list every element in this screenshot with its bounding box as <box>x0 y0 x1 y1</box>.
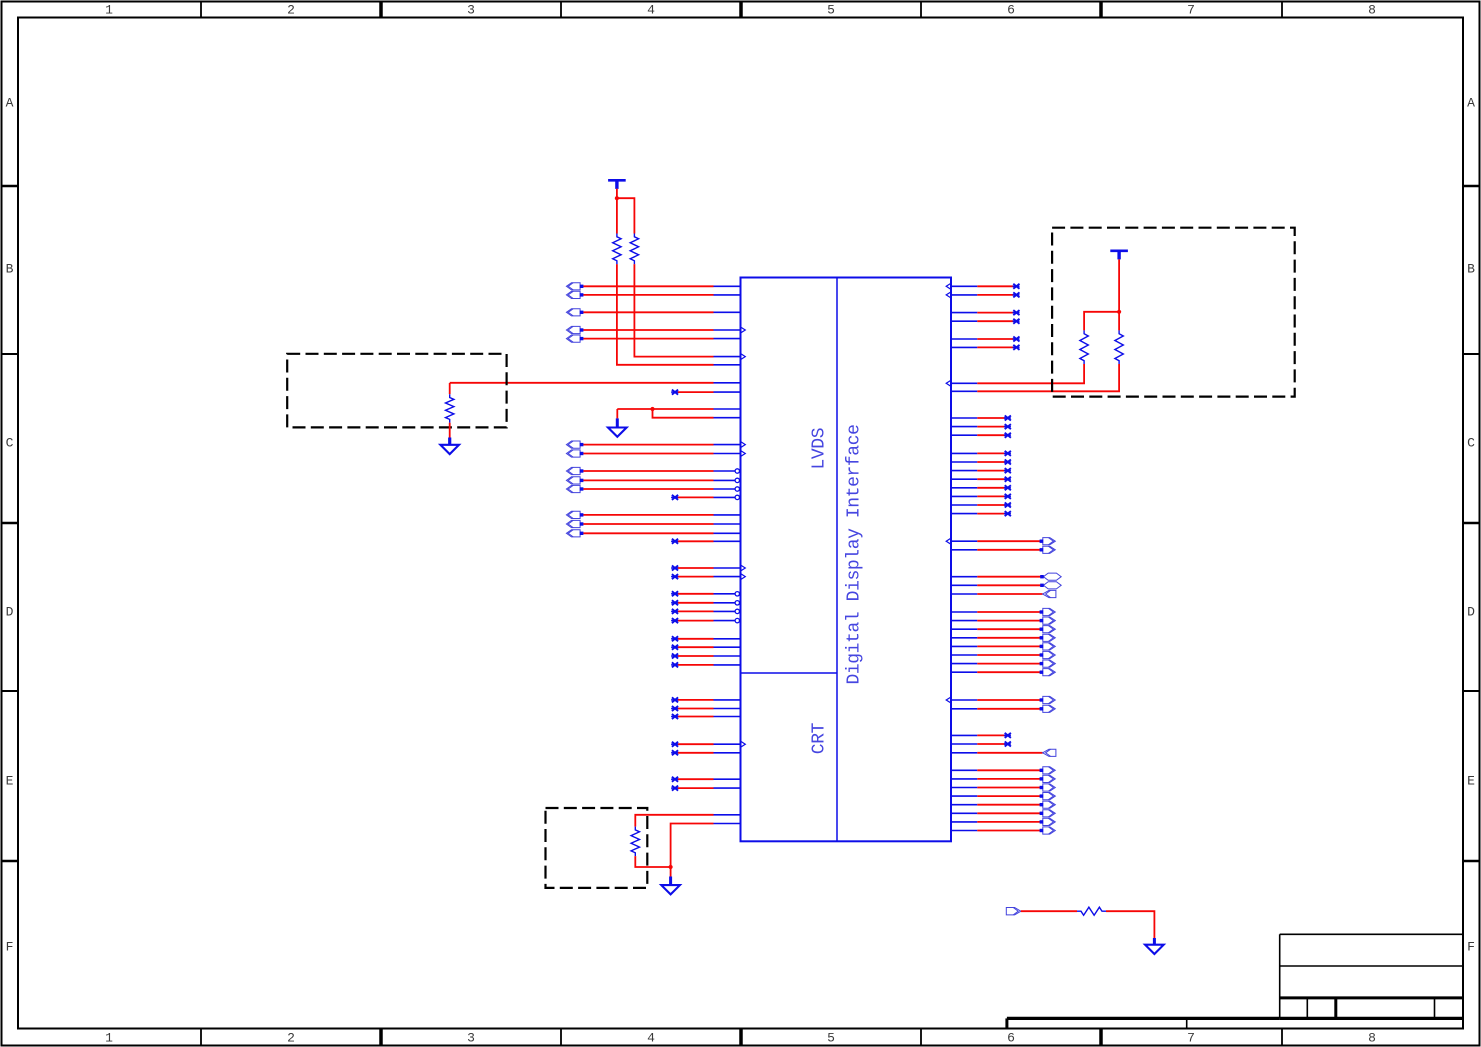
pin R28 y=637.8 <box>951 634 1055 641</box>
svg-text:A: A <box>1467 96 1475 111</box>
pin R12 y=453.4 <box>951 451 1011 456</box>
svg-text:A: A <box>6 96 14 111</box>
pin L30 y=656.0 <box>671 654 740 659</box>
pin R35 y=735.4 <box>951 733 1011 738</box>
ground GND2 <box>608 428 627 437</box>
pin L14 y=471.0 <box>566 467 740 474</box>
wire junction A to R1 top <box>616 198 618 233</box>
svg-text:B: B <box>6 262 14 277</box>
svg-text:6: 6 <box>1007 1031 1015 1046</box>
pin R30 y=655.0 <box>951 651 1055 658</box>
svg-text:1: 1 <box>105 1031 113 1046</box>
svg-text:8: 8 <box>1368 3 1376 18</box>
pin L6 y=356.6 <box>634 264 745 359</box>
resistor R1 <box>613 234 621 265</box>
ground GND3 stem <box>669 877 672 886</box>
pin L15 y=480.4 <box>566 477 740 484</box>
pin L34 y=716.5 <box>671 714 740 719</box>
ground GND2 stem <box>616 418 619 428</box>
svg-text:C: C <box>1467 436 1475 451</box>
wire pin L40 to node D <box>671 824 714 868</box>
ground GND1 stem <box>448 438 451 445</box>
junction node B <box>650 407 654 411</box>
pin R9 y=418.0 <box>951 416 1011 421</box>
ground GND1 <box>440 445 459 454</box>
svg-text:E: E <box>1467 774 1475 789</box>
pin L17 y=497.4 <box>671 495 740 500</box>
pin R31 y=663.6 <box>951 660 1055 667</box>
svg-text:1: 1 <box>105 3 113 18</box>
pin R40 y=787.5 <box>951 784 1055 791</box>
pin R27 y=629.2 <box>951 626 1055 633</box>
pin L38 y=788.1 <box>671 786 740 791</box>
zone column dividers <box>201 2 1282 1046</box>
pin L25 y=602.8 <box>671 600 740 605</box>
pin L24 y=593.8 <box>671 591 740 596</box>
pin R42 y=804.7 <box>951 801 1055 808</box>
svg-text:2: 2 <box>287 1031 295 1046</box>
IC U1 section divider vertical <box>836 278 838 842</box>
zone row dividers <box>2 186 1480 861</box>
pin L35 y=744.2 <box>671 741 745 747</box>
IC U1 section divider horizontal (LVDS/CRT) <box>741 672 838 674</box>
pin R25 y=612.0 <box>951 608 1055 615</box>
pin L3 y=312.3 <box>566 309 740 316</box>
port P_BR <box>1006 908 1021 915</box>
dashed box DNI left <box>287 354 506 428</box>
pin L7 y=364.8 <box>617 264 741 365</box>
wire R3 bottom <box>449 423 451 438</box>
svg-text:Digital Display Interface: Digital Display Interface <box>844 424 864 684</box>
pin L10 y=409.0 <box>617 408 740 410</box>
junction node C <box>1117 310 1121 314</box>
resistor R5 <box>1115 330 1123 364</box>
pin L8 y=382.8 <box>450 382 741 384</box>
pin L29 y=647.2 <box>671 645 740 650</box>
pin R44 y=821.9 <box>951 818 1055 825</box>
junction node D <box>669 865 673 869</box>
pin R14 y=470.6 <box>951 468 1011 473</box>
resistor R3 <box>446 394 454 423</box>
svg-text:7: 7 <box>1187 3 1195 18</box>
junction node A <box>615 196 619 200</box>
pin L4 y=330.0 <box>566 326 745 333</box>
pin R26 y=620.6 <box>951 617 1055 624</box>
wire R6 top to pin L39 <box>635 815 713 827</box>
wire P_BR to R7 <box>1021 910 1077 912</box>
pin R43 y=813.3 <box>951 810 1055 817</box>
power symbol VCC1 <box>608 180 626 189</box>
svg-text:CRT: CRT <box>809 722 829 754</box>
svg-text:4: 4 <box>647 3 655 18</box>
bottom strip <box>1007 1018 1280 1028</box>
wire R3 top to pin <box>449 383 451 394</box>
pin R37 y=752.8 <box>951 749 1056 756</box>
pin R18 y=505.0 <box>951 503 1011 508</box>
svg-text:6: 6 <box>1007 3 1015 18</box>
wire VCC2 down <box>1118 259 1120 311</box>
svg-text:LVDS: LVDS <box>809 428 829 470</box>
pin R16 y=487.8 <box>951 485 1011 490</box>
pin R5 y=339.0 <box>951 337 1020 342</box>
label LVDS <box>809 428 829 470</box>
dashed box DNI bottom <box>546 808 648 888</box>
pin L13 y=453.5 <box>566 450 745 457</box>
resistor R7 <box>1077 907 1106 915</box>
svg-text:E: E <box>6 774 14 789</box>
wire R6 bottom to node D <box>635 856 670 867</box>
pin L9 y=392.1 <box>671 390 740 395</box>
resistor R6 <box>631 827 639 857</box>
pin R15 y=479.2 <box>951 477 1011 482</box>
pin R45 y=830.5 <box>951 827 1055 834</box>
svg-text:5: 5 <box>827 1031 835 1046</box>
pin L28 y=638.8 <box>671 636 740 641</box>
wire node C to R4 top <box>1084 312 1119 331</box>
pin R36 y=744.0 <box>951 742 1011 747</box>
pin L37 y=779.2 <box>671 777 740 782</box>
power symbol VCC2 <box>1110 251 1128 260</box>
wire node D to ground <box>670 867 672 877</box>
ground GND4 stem <box>1153 938 1156 945</box>
pin R24 y=594.0 <box>951 590 1056 597</box>
wire R7 to corner <box>1106 911 1154 938</box>
svg-text:2: 2 <box>287 3 295 18</box>
pin R32 y=672.2 <box>951 669 1055 676</box>
ground GND4 <box>1145 945 1164 954</box>
svg-text:5: 5 <box>827 3 835 18</box>
pin L39 y=814.8 <box>714 814 741 816</box>
svg-text:3: 3 <box>467 3 475 18</box>
pin R2 y=294.9 <box>946 292 1019 298</box>
dashed box DNI right <box>1052 228 1295 397</box>
pin R4 y=321.2 <box>951 319 1020 324</box>
pin L20 y=533.3 <box>566 530 740 537</box>
pin L11 y=417.7 <box>653 409 741 418</box>
IC U1 Digital Display Interface outline <box>741 278 952 842</box>
pin L26 y=611.4 <box>671 609 740 614</box>
pin R39 y=778.9 <box>951 775 1055 782</box>
pin R6 y=347.4 <box>951 345 1020 350</box>
pin L5 y=338.6 <box>566 335 740 342</box>
pin L27 y=620.6 <box>671 618 740 623</box>
pin L2 y=294.9 <box>566 291 740 298</box>
svg-text:B: B <box>1467 262 1475 277</box>
wire VCC1 to junction <box>616 189 618 199</box>
pin R38 y=770.3 <box>951 767 1055 774</box>
pin R33 y=700.0 <box>946 696 1055 703</box>
pin L19 y=524.0 <box>566 520 740 527</box>
pin R41 y=796.1 <box>951 793 1055 800</box>
pin R17 y=496.4 <box>951 494 1011 499</box>
pin R23 y=585.3 <box>951 582 1061 589</box>
pin R13 y=462.0 <box>951 460 1011 465</box>
pin R19 y=513.6 <box>951 511 1011 516</box>
wire pin-L10 to ground <box>616 409 618 418</box>
title block <box>1280 934 1463 1018</box>
pin L18 y=514.9 <box>566 511 740 518</box>
svg-text:C: C <box>6 436 14 451</box>
pin R10 y=426.6 <box>951 424 1011 429</box>
pin L16 y=489.0 <box>566 485 740 492</box>
svg-text:8: 8 <box>1368 1031 1376 1046</box>
svg-text:3: 3 <box>467 1031 475 1046</box>
pin R21 y=549.8 <box>951 546 1055 553</box>
svg-text:D: D <box>1467 605 1475 620</box>
svg-text:F: F <box>6 940 14 955</box>
pin R1 y=286.3 <box>946 284 1019 290</box>
pin L1 y=286.3 <box>566 283 740 290</box>
pin R34 y=708.8 <box>951 705 1055 712</box>
pin R20 y=541.2 <box>946 538 1055 545</box>
svg-text:F: F <box>1467 940 1475 955</box>
label Digital Display Interface <box>844 424 864 684</box>
pin L23 y=576.6 <box>671 574 745 580</box>
svg-text:D: D <box>6 605 14 620</box>
wire junction A to R2 top <box>617 198 635 233</box>
pin L32 y=699.9 <box>671 697 740 702</box>
wire node C to R5 top <box>1118 312 1120 331</box>
pin L22 y=568.0 <box>671 565 745 571</box>
label CRT <box>809 722 829 754</box>
pin L21 y=541.3 <box>671 539 740 544</box>
pin R11 y=435.2 <box>951 433 1011 438</box>
pin R29 y=646.4 <box>951 643 1055 650</box>
resistor R2 <box>630 234 638 265</box>
pin L31 y=664.9 <box>671 662 740 667</box>
ground GND3 <box>661 885 680 894</box>
pin L33 y=708.5 <box>671 706 740 711</box>
pin L36 y=752.8 <box>671 750 740 755</box>
pin R22 y=576.7 <box>951 573 1061 580</box>
pin L12 y=444.6 <box>566 441 745 448</box>
svg-text:4: 4 <box>647 1031 655 1046</box>
pin L40 y=823.5 <box>714 823 741 825</box>
pin R8 y=391.3 <box>951 364 1119 391</box>
resistor R4 <box>1080 330 1088 364</box>
svg-text:7: 7 <box>1187 1031 1195 1046</box>
pin R7 y=383.3 <box>946 364 1084 386</box>
pin R3 y=312.6 <box>951 310 1020 315</box>
